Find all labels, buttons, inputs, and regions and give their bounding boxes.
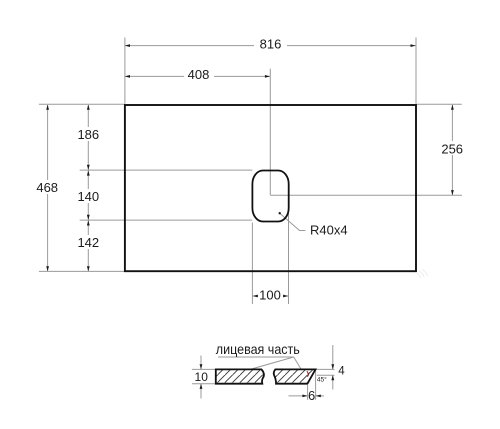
svg-text:256: 256 <box>441 141 463 156</box>
svg-text:816: 816 <box>260 36 282 51</box>
svg-text:6: 6 <box>308 388 315 403</box>
svg-text:4: 4 <box>338 366 345 378</box>
svg-text:468: 468 <box>36 180 58 195</box>
svg-text:лицевая часть: лицевая часть <box>216 341 300 357</box>
svg-text:142: 142 <box>77 235 99 250</box>
svg-text:100: 100 <box>259 288 281 303</box>
svg-text:45°: 45° <box>317 375 327 383</box>
svg-text:R40x4: R40x4 <box>310 223 348 238</box>
svg-text:186: 186 <box>77 127 99 142</box>
svg-text:408: 408 <box>188 67 210 82</box>
svg-text:140: 140 <box>77 189 99 204</box>
svg-text:10: 10 <box>195 370 209 384</box>
